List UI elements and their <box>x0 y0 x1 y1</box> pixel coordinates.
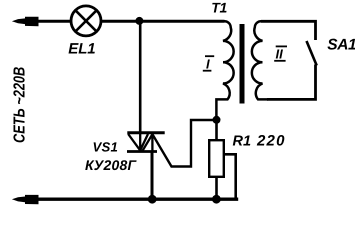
wire node B to R1 <box>215 120 218 139</box>
svg-text:СЕТЬ ~220В: СЕТЬ ~220В <box>12 67 29 143</box>
node B junction <box>213 116 221 124</box>
gate wire <box>152 120 216 167</box>
svg-text:R1: R1 <box>233 134 252 150</box>
wire switch bottom loop <box>267 65 316 100</box>
svg-text:II: II <box>276 47 284 62</box>
wire cathode vertical <box>151 152 154 200</box>
transformer core <box>240 24 245 104</box>
svg-text:КУ208Г: КУ208Г <box>85 157 137 173</box>
wire side loop right of R1 <box>224 154 236 199</box>
wire top mains <box>30 20 71 23</box>
node A junction <box>135 17 143 25</box>
svg-text:EL1: EL1 <box>68 41 95 58</box>
wire R1 bottom <box>215 178 218 199</box>
wire secondary top to switch <box>261 21 316 40</box>
triac VS1 top bar <box>127 131 164 134</box>
wire lamp to transformer <box>102 20 225 23</box>
triac down triangle <box>128 134 148 150</box>
triac up triangle <box>142 134 152 151</box>
node D junction <box>148 195 157 204</box>
transformer secondary winding II <box>252 21 268 99</box>
arrow mains bottom <box>12 195 39 204</box>
wire anode vertical <box>139 21 142 133</box>
svg-text:I: I <box>206 56 210 71</box>
node C junction <box>212 195 221 204</box>
svg-text:220: 220 <box>256 133 286 150</box>
triac bottom bar <box>127 150 157 153</box>
svg-text:SA1: SA1 <box>327 37 355 54</box>
resistor R1 <box>209 140 224 177</box>
lamp EL1 <box>71 6 101 36</box>
svg-text:T1: T1 <box>211 0 227 16</box>
bottom wire <box>30 198 238 201</box>
svg-text:VS1: VS1 <box>93 140 119 155</box>
arrow mains top <box>12 17 39 27</box>
switch SA1 blade <box>307 41 317 66</box>
transformer primary winding I <box>216 21 233 120</box>
